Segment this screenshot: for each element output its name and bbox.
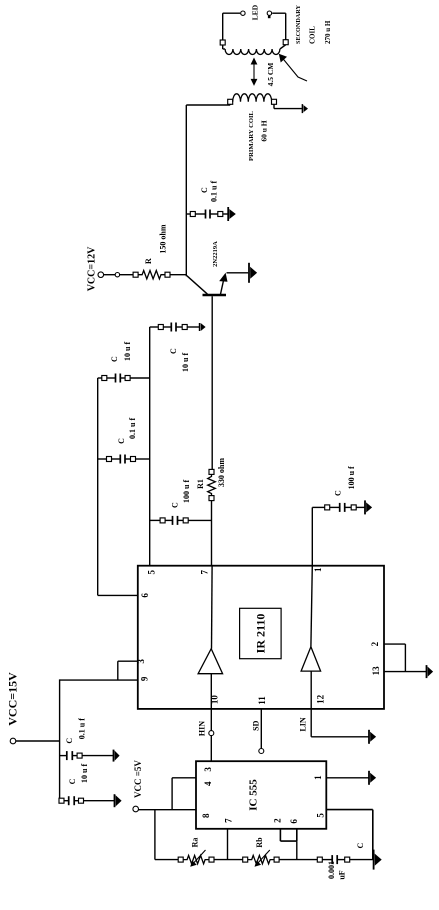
svg-text:330 ohm: 330 ohm bbox=[217, 458, 226, 487]
wire gap double arrow bbox=[251, 58, 258, 86]
svg-text:150 ohm: 150 ohm bbox=[159, 224, 168, 253]
wire pin13 riser bbox=[384, 671, 426, 673]
label 2N2219A bbox=[212, 241, 219, 267]
wire VCC=15V rail bbox=[59, 679, 61, 801]
svg-text:10: 10 bbox=[210, 695, 220, 705]
svg-text:VCC=15V: VCC=15V bbox=[6, 672, 20, 726]
label SD bbox=[252, 720, 261, 730]
svg-text:1: 1 bbox=[313, 775, 323, 780]
resistor R1 330 ohm bbox=[208, 469, 216, 500]
label COIL bbox=[309, 26, 317, 44]
wire pin5 (555) down bbox=[326, 810, 373, 860]
svg-text:VCC=12V: VCC=12V bbox=[87, 246, 98, 291]
capacitor C 0.001uF bbox=[317, 855, 373, 864]
capacitor C 100uf (LO) bbox=[312, 503, 364, 512]
pin 11 label (2110) bbox=[257, 696, 267, 705]
pin 6 label (2110) bbox=[140, 593, 150, 598]
wire emitter down bbox=[227, 272, 249, 274]
pin 13 label (2110) bbox=[371, 666, 381, 676]
svg-text:C: C bbox=[200, 187, 209, 193]
svg-text:5: 5 bbox=[315, 813, 325, 818]
capacitor C 0.1uf (rails) bbox=[98, 455, 150, 464]
svg-text:100 u f: 100 u f bbox=[347, 466, 356, 489]
svg-text:8: 8 bbox=[201, 813, 211, 818]
svg-text:0.1 u f: 0.1 u f bbox=[128, 418, 137, 439]
label HIN bbox=[198, 721, 207, 736]
svg-text:IR 2110: IR 2110 bbox=[254, 614, 268, 654]
svg-text:7: 7 bbox=[223, 818, 233, 823]
ground (LO cap) bbox=[365, 500, 372, 514]
resistor R 150 ohm bbox=[133, 271, 170, 279]
svg-text:SECONDARY: SECONDARY bbox=[295, 4, 302, 44]
pin 12 label (2110) bbox=[315, 694, 325, 704]
diode LED terminal A bbox=[241, 11, 245, 15]
wire LED top bbox=[223, 13, 241, 40]
wire collector to coil bbox=[186, 104, 230, 106]
svg-text:13: 13 bbox=[371, 666, 381, 676]
op-amp IR 2110 box bbox=[138, 566, 384, 709]
svg-text:60 u H: 60 u H bbox=[260, 120, 269, 141]
label VCC=15V bbox=[6, 672, 20, 726]
buffer triangle (high side) bbox=[198, 649, 223, 674]
label C 10uf (rails) bbox=[110, 342, 132, 362]
label R1 bbox=[196, 479, 205, 489]
label C (timing cap) bbox=[356, 843, 365, 849]
svg-text:0.1 u f: 0.1 u f bbox=[210, 181, 219, 202]
node HIN test point bbox=[209, 731, 214, 736]
label Rb bbox=[255, 837, 264, 848]
label IC 555 bbox=[248, 779, 260, 811]
resistor Ra bbox=[178, 850, 214, 867]
pin 7 label (2110) bbox=[199, 569, 209, 574]
svg-text:C: C bbox=[333, 490, 342, 496]
svg-text:10 u f: 10 u f bbox=[80, 764, 89, 783]
svg-text:SD: SD bbox=[252, 720, 261, 730]
wire collector rail bbox=[185, 105, 187, 276]
wire VCC5 to Ra bbox=[154, 810, 156, 860]
label C 10uf (VS) bbox=[169, 348, 190, 372]
pin 5 label (2110) bbox=[147, 569, 157, 574]
ground (primary coil) bbox=[302, 104, 308, 113]
svg-text:Ra: Ra bbox=[191, 838, 200, 848]
wire HO to R1 bbox=[211, 501, 213, 566]
capacitor C 0.1uf (collector) bbox=[186, 210, 227, 219]
svg-text:4.5 CM: 4.5 CM bbox=[266, 63, 275, 87]
wire HIN bbox=[210, 709, 212, 761]
wire Rb-C junction bbox=[279, 859, 317, 861]
pin 1 label (2110) bbox=[313, 567, 323, 572]
pin 5 label (555) bbox=[315, 813, 325, 818]
wire LIN internal bbox=[310, 671, 312, 709]
label 0.001 uF bbox=[327, 861, 347, 880]
svg-text:LIN: LIN bbox=[299, 717, 308, 731]
label C 100uf (bootstrap) bbox=[171, 480, 191, 508]
svg-text:HIN: HIN bbox=[198, 721, 207, 736]
svg-text:0.1 u f: 0.1 u f bbox=[78, 718, 87, 739]
svg-text:C: C bbox=[117, 438, 126, 444]
wire LED bottom bbox=[272, 13, 286, 40]
label LIN bbox=[299, 717, 308, 731]
wire rail A (VB) bbox=[97, 378, 99, 595]
pin 7 label (555) bbox=[223, 818, 233, 823]
ground (0.1uf cap) bbox=[114, 750, 120, 762]
node VCC=15V supply terminal bbox=[10, 738, 59, 744]
label C 0.1uf (rails) bbox=[117, 418, 137, 444]
wire label leader arrow bbox=[279, 54, 307, 81]
svg-text:1: 1 bbox=[313, 567, 323, 572]
svg-text:R: R bbox=[144, 258, 153, 264]
wire pin7 stub bbox=[227, 829, 229, 860]
diode LED polarity dot bbox=[268, 16, 271, 19]
pin 1 label (555) bbox=[313, 775, 323, 780]
svg-text:100 u f: 100 u f bbox=[182, 480, 191, 503]
wire rail B (VS) bbox=[149, 327, 151, 566]
pin 4 label (555) bbox=[203, 781, 213, 786]
pin 3 label (2110) bbox=[136, 659, 146, 664]
node VCC=5V terminal bbox=[133, 806, 196, 812]
inductor secondary coil bbox=[220, 40, 288, 55]
diode LED terminal B bbox=[267, 11, 271, 15]
wire LO internal bbox=[311, 566, 312, 647]
svg-text:3: 3 bbox=[203, 767, 213, 772]
label 270 u H bbox=[324, 20, 332, 44]
ground (LIN) bbox=[369, 730, 376, 744]
label 4.5 CM bbox=[266, 63, 275, 87]
capacitor C 10uf (rails) bbox=[98, 374, 150, 383]
wire pin2 stub bbox=[279, 829, 281, 841]
wire LIN bbox=[311, 709, 368, 737]
label SECONDARY bbox=[295, 4, 302, 44]
label IR 2110 bbox=[254, 614, 268, 654]
svg-text:2: 2 bbox=[370, 641, 380, 646]
label Ra bbox=[191, 838, 200, 848]
svg-text:Rb: Rb bbox=[255, 837, 264, 848]
ground (COM/VSS) bbox=[427, 665, 434, 678]
label VCC =5V bbox=[133, 760, 143, 798]
pin 3 label (555) bbox=[203, 767, 213, 772]
svg-text:C: C bbox=[356, 843, 365, 849]
wire pin6 stub bbox=[296, 829, 298, 841]
buffer triangle (low side) bbox=[301, 647, 321, 671]
pin 2 label (2110) bbox=[370, 641, 380, 646]
label 150 ohm bbox=[159, 224, 168, 253]
wire R to collector bbox=[170, 274, 186, 276]
wire pins2-6 stub bbox=[296, 841, 298, 860]
label C 100uf (LO) bbox=[333, 466, 356, 496]
resistor Rb bbox=[243, 850, 279, 867]
wire emitter diagonal bbox=[219, 273, 227, 295]
ground (timing cap) bbox=[374, 850, 382, 870]
svg-text:LED: LED bbox=[251, 4, 260, 20]
ground (snubber) bbox=[228, 207, 236, 221]
svg-text:C: C bbox=[68, 778, 77, 784]
svg-text:7: 7 bbox=[199, 569, 209, 574]
wire pin6 riser bbox=[98, 594, 138, 596]
pin 8 label (555) bbox=[201, 813, 211, 818]
label 60 u H bbox=[260, 120, 269, 141]
label R bbox=[144, 258, 153, 264]
svg-text:2N2219A: 2N2219A bbox=[212, 241, 219, 267]
svg-text:12: 12 bbox=[315, 694, 325, 704]
svg-text:PRIMARY COIL: PRIMARY COIL bbox=[248, 110, 255, 160]
svg-text:0.001: 0.001 bbox=[327, 861, 336, 879]
svg-text:270 u H: 270 u H bbox=[324, 20, 332, 44]
svg-text:VCC =5V: VCC =5V bbox=[133, 760, 143, 798]
svg-text:4: 4 bbox=[203, 781, 213, 786]
wire pin4 bracket bbox=[172, 778, 196, 810]
svg-text:COIL: COIL bbox=[309, 26, 317, 44]
pin 9 label (2110) bbox=[139, 676, 149, 681]
label VCC=12V bbox=[87, 246, 98, 291]
wire Ra-Rb junction bbox=[214, 859, 243, 861]
node small junction bbox=[115, 273, 133, 277]
svg-text:2: 2 bbox=[273, 818, 283, 823]
node SD terminal bbox=[259, 749, 264, 754]
wire pin1 (555) down bbox=[326, 777, 368, 779]
wire coil to ground bbox=[274, 104, 302, 108]
node VCC=12V terminal bbox=[98, 272, 115, 278]
capacitor C 100uf (bootstrap) bbox=[150, 516, 212, 525]
ground (VS cap) bbox=[200, 323, 206, 331]
svg-text:5: 5 bbox=[147, 569, 157, 574]
pin 2 label (555) bbox=[273, 818, 283, 823]
wire collector diagonal bbox=[187, 276, 208, 295]
svg-text:3: 3 bbox=[136, 659, 146, 664]
inductor primary coil bbox=[228, 94, 277, 105]
capacitor C 10uf (15V rail) bbox=[59, 796, 114, 805]
svg-text:uF: uF bbox=[338, 870, 347, 879]
wire LO out bbox=[311, 507, 313, 565]
svg-text:C: C bbox=[171, 502, 180, 508]
svg-text:6: 6 bbox=[289, 819, 299, 824]
pin 10 label (2110) bbox=[210, 695, 220, 705]
capacitor C 0.1uf (15V rail) bbox=[60, 751, 113, 760]
ground (10uf cap) bbox=[115, 794, 122, 807]
label LED bbox=[251, 4, 260, 20]
label C 0.1uf bbox=[65, 718, 87, 744]
label C 10uf bbox=[68, 764, 89, 785]
component IR 2110 inner box bbox=[240, 608, 282, 658]
svg-text:11: 11 bbox=[257, 696, 267, 705]
pin 6 label (555) bbox=[289, 819, 299, 824]
ground (555 pin1) bbox=[369, 771, 376, 785]
wire SD bbox=[260, 709, 262, 749]
svg-text:R1: R1 bbox=[196, 479, 205, 489]
ground (emitter) bbox=[249, 263, 257, 283]
wire HIN internal bbox=[210, 674, 212, 709]
label PRIMARY COIL bbox=[248, 110, 255, 160]
label C 0.1uf (collector) bbox=[200, 181, 219, 202]
wire Ra top bbox=[155, 859, 178, 861]
svg-text:9: 9 bbox=[139, 676, 149, 681]
wire R1 to base bbox=[211, 296, 213, 469]
svg-text:10 u f: 10 u f bbox=[123, 342, 132, 361]
wire pin2 riser bbox=[384, 643, 405, 645]
wire pin9 riser to VCC rail bbox=[60, 679, 138, 681]
wire pin3-pin9 bracket bbox=[117, 661, 119, 680]
wire pin3 riser bbox=[118, 660, 138, 662]
transistor Q1 2N2219A base bar bbox=[203, 294, 227, 297]
svg-text:C: C bbox=[65, 738, 74, 744]
wire HO internal bbox=[211, 566, 214, 649]
label 330 ohm bbox=[217, 458, 226, 487]
op-amp IC 555 box bbox=[196, 761, 326, 829]
wire pin2-13 bracket bbox=[404, 644, 406, 672]
svg-text:10 u f: 10 u f bbox=[181, 353, 190, 372]
wire pin2-6 bracket bbox=[280, 840, 296, 842]
svg-text:6: 6 bbox=[140, 593, 150, 598]
svg-text:C: C bbox=[169, 348, 178, 354]
svg-text:C: C bbox=[110, 356, 119, 362]
capacitor C 10uf (VS) bbox=[150, 323, 200, 332]
svg-text:IC 555: IC 555 bbox=[248, 779, 260, 811]
